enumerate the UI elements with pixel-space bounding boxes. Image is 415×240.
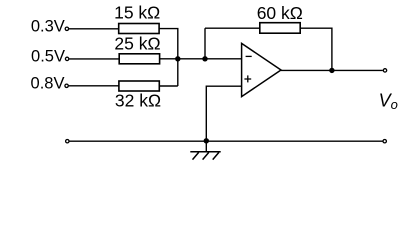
wire summing bus bbox=[177, 59, 179, 86]
wire bbox=[69, 28, 119, 30]
svg-text:60 kΩ: 60 kΩ bbox=[257, 3, 303, 23]
svg-text:25 kΩ: 25 kΩ bbox=[114, 34, 160, 54]
wire bbox=[69, 58, 119, 60]
op-amp U1 bbox=[242, 43, 281, 96]
wire noninverting input bbox=[206, 86, 241, 141]
wire bbox=[159, 85, 178, 87]
ground bbox=[190, 152, 220, 160]
wire bbox=[69, 85, 119, 87]
svg-text:0.3V: 0.3V bbox=[31, 18, 65, 36]
wire feedback tap bbox=[204, 28, 206, 59]
terminal T1 bbox=[65, 27, 68, 30]
resistor R2 bbox=[119, 54, 159, 64]
terminal Tout bbox=[383, 69, 386, 72]
resistor R3 bbox=[119, 81, 159, 91]
wire bbox=[160, 58, 242, 60]
wire bbox=[159, 29, 178, 59]
resistor R1 bbox=[119, 24, 159, 34]
wire output bbox=[281, 69, 383, 71]
resistor Rf bbox=[260, 23, 300, 34]
svg-text:15 kΩ: 15 kΩ bbox=[114, 3, 160, 23]
junction node A bbox=[175, 56, 180, 61]
svg-text:0.5V: 0.5V bbox=[31, 48, 65, 66]
svg-text:0.8V: 0.8V bbox=[31, 75, 65, 93]
terminal Tbl bbox=[66, 140, 69, 143]
junction node out bbox=[329, 68, 334, 73]
svg-text:32 kΩ: 32 kΩ bbox=[115, 91, 161, 111]
wire bottom rail bbox=[69, 140, 382, 142]
op-amp U1 minus pin mark bbox=[246, 55, 252, 57]
wire bbox=[205, 27, 260, 29]
wire bbox=[300, 28, 332, 70]
junction node gnd bbox=[204, 138, 209, 143]
op-amp U1 plus pin mark bbox=[244, 75, 251, 82]
junction node B bbox=[202, 56, 207, 61]
wire ground stub bbox=[205, 141, 207, 152]
terminal T2 bbox=[65, 57, 68, 60]
terminal Tbr bbox=[383, 140, 386, 143]
terminal T3 bbox=[65, 84, 68, 87]
